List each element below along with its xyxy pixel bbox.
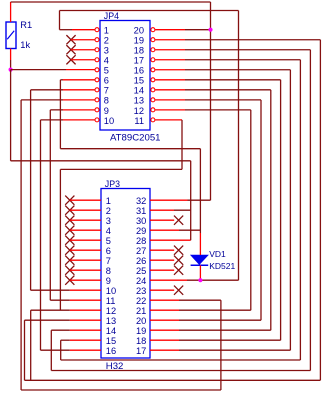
svg-text:JP3: JP3 (105, 179, 120, 189)
svg-text:3: 3 (104, 46, 109, 56)
svg-text:1k: 1k (20, 40, 30, 50)
svg-text:18: 18 (136, 336, 146, 346)
svg-text:JP4: JP4 (104, 11, 119, 21)
svg-text:28: 28 (136, 236, 146, 246)
svg-text:VD1: VD1 (209, 249, 226, 259)
svg-text:2: 2 (106, 206, 111, 216)
svg-text:30: 30 (136, 216, 146, 226)
svg-text:8: 8 (106, 266, 111, 276)
svg-text:13: 13 (106, 316, 116, 326)
svg-text:7: 7 (106, 256, 111, 266)
svg-text:19: 19 (136, 326, 146, 336)
svg-text:R1: R1 (20, 20, 32, 30)
svg-text:20: 20 (134, 26, 144, 36)
svg-text:15: 15 (134, 76, 144, 86)
svg-text:31: 31 (136, 206, 146, 216)
svg-text:6: 6 (104, 76, 109, 86)
svg-text:14: 14 (134, 86, 144, 96)
svg-text:4: 4 (104, 56, 109, 66)
svg-text:11: 11 (134, 116, 144, 126)
svg-text:23: 23 (136, 286, 146, 296)
svg-text:10: 10 (106, 286, 116, 296)
svg-text:14: 14 (106, 326, 116, 336)
svg-text:25: 25 (136, 266, 146, 276)
svg-text:AT89C2051: AT89C2051 (110, 132, 161, 143)
svg-text:29: 29 (136, 226, 146, 236)
svg-text:16: 16 (134, 66, 144, 76)
svg-text:27: 27 (136, 246, 146, 256)
svg-text:2: 2 (104, 36, 109, 46)
svg-text:11: 11 (106, 296, 116, 306)
svg-text:9: 9 (106, 276, 111, 286)
svg-text:24: 24 (136, 276, 146, 286)
svg-text:1: 1 (104, 26, 109, 36)
svg-text:17: 17 (134, 56, 144, 66)
svg-text:4: 4 (106, 226, 111, 236)
svg-text:26: 26 (136, 256, 146, 266)
svg-text:12: 12 (134, 106, 144, 116)
svg-text:32: 32 (136, 196, 146, 206)
svg-text:13: 13 (134, 96, 144, 106)
svg-text:22: 22 (136, 296, 146, 306)
svg-text:1: 1 (106, 196, 111, 206)
svg-text:16: 16 (106, 346, 116, 356)
svg-text:3: 3 (106, 216, 111, 226)
svg-text:KD521: KD521 (209, 261, 235, 271)
svg-text:21: 21 (136, 306, 146, 316)
svg-text:7: 7 (104, 86, 109, 96)
svg-text:18: 18 (134, 46, 144, 56)
svg-text:10: 10 (104, 116, 114, 126)
svg-text:15: 15 (106, 336, 116, 346)
svg-text:5: 5 (106, 236, 111, 246)
svg-text:5: 5 (104, 66, 109, 76)
svg-text:19: 19 (134, 36, 144, 46)
svg-text:17: 17 (136, 346, 146, 356)
svg-text:20: 20 (136, 316, 146, 326)
svg-text:6: 6 (106, 246, 111, 256)
svg-text:8: 8 (104, 96, 109, 106)
svg-text:9: 9 (104, 106, 109, 116)
svg-text:12: 12 (106, 306, 116, 316)
